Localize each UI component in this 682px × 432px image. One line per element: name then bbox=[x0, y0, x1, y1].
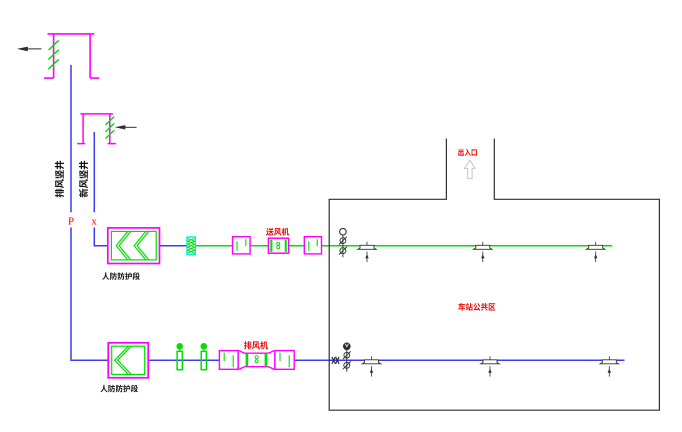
butterfly valve 1 on exhaust duct bbox=[176, 343, 183, 350]
exhaust diffuser 3 bbox=[608, 356, 610, 360]
label 送风机 bbox=[266, 228, 289, 236]
label 排风机 bbox=[244, 341, 268, 349]
svg-text:x: x bbox=[91, 216, 97, 228]
blast valve chevrons (double, pointing left) bbox=[116, 231, 149, 260]
louver hatching on exhaust shaft bbox=[48, 40, 58, 69]
supply diffuser 3 bbox=[595, 242, 597, 246]
exhaust diffuser 2 bbox=[489, 356, 491, 360]
supply fan 送风机 bbox=[268, 238, 288, 253]
civil defense protection box (upper 人防防护段) bbox=[108, 228, 160, 264]
label 排风竖井 (vertical) bbox=[55, 161, 64, 198]
fresh air riser run to civil defense box bbox=[94, 228, 108, 246]
damper box 1 on supply duct bbox=[233, 237, 251, 254]
label 出入口 bbox=[458, 149, 477, 156]
label 车站公共区 bbox=[458, 303, 495, 311]
exhaust duct blue main run bbox=[148, 359, 625, 361]
supply duct blue segment box to flexible joint bbox=[160, 245, 188, 247]
exhaust shaft symbol (排风竖井) bbox=[44, 34, 99, 78]
entrance arrow (hollow, up) bbox=[465, 160, 476, 178]
wall crossing symbol XX on exhaust duct bbox=[332, 357, 339, 364]
civil defense protection box (lower 人防防护段) bbox=[108, 343, 148, 378]
butterfly valve 2 on exhaust duct bbox=[201, 343, 208, 350]
supply diffuser 1 bbox=[366, 242, 368, 246]
blast valve chevron (single, pointing left) bbox=[115, 346, 132, 374]
exhaust riser lower run to civil defense box bbox=[71, 228, 108, 361]
exhaust fan assembly 排风机 bbox=[219, 351, 294, 370]
exhaust riser duct (node P) bbox=[70, 65, 72, 212]
label 人防防护段 (lower) bbox=[101, 385, 139, 393]
damper box 2 on supply duct bbox=[304, 237, 321, 254]
supply diffuser 2 bbox=[482, 242, 484, 246]
fresh air riser duct (node x) bbox=[93, 132, 95, 212]
station outline walls bbox=[329, 139, 659, 411]
airflow arrow out of exhaust shaft bbox=[17, 47, 42, 52]
svg-text:P: P bbox=[68, 216, 74, 228]
supply duct green main run bbox=[195, 245, 612, 247]
exhaust diffuser 1 bbox=[371, 356, 373, 360]
fresh air shaft symbol (新风竖井) bbox=[77, 114, 116, 144]
louver hatching on fresh air shaft bbox=[106, 117, 115, 139]
flexible duct connector bbox=[187, 237, 195, 255]
label 新风竖井 (vertical) bbox=[79, 161, 88, 198]
valve stack on supply duct at station entry bbox=[342, 235, 344, 257]
label 人防防护段 (upper) bbox=[102, 272, 140, 280]
airflow arrow into fresh air shaft bbox=[115, 125, 137, 129]
valve stack on exhaust duct at station entry bbox=[346, 350, 348, 372]
